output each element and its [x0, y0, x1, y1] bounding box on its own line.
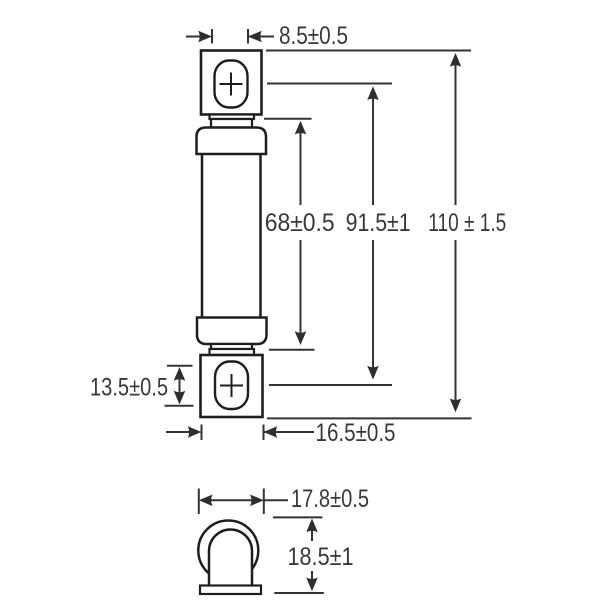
top cap cross horizontal: [220, 83, 243, 85]
svg-text:18.5±1: 18.5±1: [288, 543, 354, 571]
dim 13.5 bottom tick: [165, 405, 194, 407]
bottom cap body: [201, 355, 263, 417]
top cap oval hole: [215, 61, 248, 108]
dim 17.8 left tick: [198, 489, 200, 515]
extension line bottom neck: [269, 349, 315, 351]
dim 8.5 right arrow: [248, 36, 274, 38]
extension line top cap top: [266, 50, 471, 52]
dim 91.5 line: [372, 98, 374, 369]
dim 18.5 top tick: [273, 516, 323, 518]
fuse tube left side: [201, 154, 204, 318]
svg-text:13.5±0.5: 13.5±0.5: [90, 374, 168, 402]
extension line bottom oval center: [269, 384, 392, 386]
dim 110 line: [455, 64, 457, 402]
dim 16.5 left tick: [201, 425, 203, 441]
dim 18.5 bottom tick: [274, 592, 324, 594]
extension line bottom cap bottom: [267, 417, 472, 419]
extension line top oval center: [267, 83, 392, 85]
svg-text:17.8±0.5: 17.8±0.5: [291, 485, 369, 513]
bottom view base plate: [200, 586, 261, 595]
dim 16.5 left arrow: [166, 431, 190, 433]
dim 110 label: [425, 205, 509, 240]
dim 18.5 down arrow: [311, 571, 313, 581]
top neck lower: [211, 119, 252, 128]
top cap cross vertical: [230, 73, 232, 96]
top cap body: [201, 51, 262, 115]
bottom cap cross horizontal: [220, 385, 243, 387]
dim 91.5 label: [343, 205, 413, 240]
svg-text:110 ± 1.5: 110 ± 1.5: [428, 209, 506, 237]
svg-text:16.5±0.5: 16.5±0.5: [316, 419, 396, 447]
bottom cap oval hole: [215, 362, 248, 410]
dim 18.5 up arrow: [311, 528, 313, 541]
dim 16.5 right arrow: [264, 431, 315, 433]
bottom view inner clip: [209, 530, 252, 587]
extension line top neck: [264, 118, 312, 120]
dim 17.8 stub: [264, 499, 288, 501]
dim 8.5 left arrow: [186, 36, 200, 38]
dim 17.8 arrow line: [208, 499, 255, 501]
dim 13.5 arrow line: [179, 372, 181, 400]
top neck upper: [210, 115, 255, 120]
bottom neck lower: [210, 349, 255, 355]
dim 16.5 right tick: [263, 425, 265, 441]
bottom neck upper: [211, 344, 252, 349]
fuse tube right side: [259, 154, 262, 318]
svg-text:68±0.5: 68±0.5: [265, 209, 335, 237]
bottom view outer ring: [198, 521, 258, 581]
svg-text:91.5±1: 91.5±1: [346, 209, 411, 237]
dim 68 label: [262, 205, 337, 240]
top ferrule: [197, 128, 267, 155]
svg-text:8.5±0.5: 8.5±0.5: [279, 22, 348, 50]
dim 13.5 top tick: [167, 365, 193, 367]
bottom cap cross vertical: [231, 374, 233, 397]
dim 68 line: [300, 132, 302, 334]
bottom ferrule: [197, 318, 267, 345]
dim 8.5 right tick: [247, 29, 249, 44]
dim 17.8 right tick: [263, 489, 265, 515]
dim 8.5 left tick: [211, 29, 213, 44]
